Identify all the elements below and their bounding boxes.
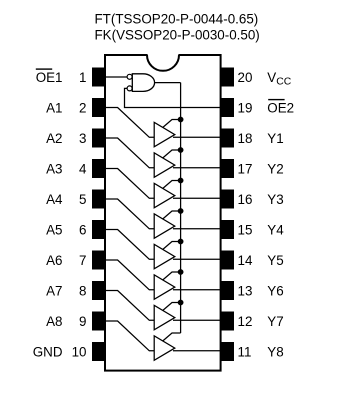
pin 1 pad (OE1): [92, 68, 105, 87]
svg-text:Y5: Y5: [267, 253, 283, 268]
pin 5 pad (A4): [92, 190, 105, 209]
svg-text:A2: A2: [46, 131, 62, 146]
wire enable tap to U6: [163, 272, 181, 280]
junction dot on enable bus at U4: [178, 208, 184, 214]
pin 7 pad (A6): [92, 251, 105, 270]
wire A3 input from pin 4: [105, 169, 155, 199]
vertical enable bus wire: [180, 83, 182, 333]
wire A6 input from pin 7: [105, 260, 155, 290]
svg-text:CC: CC: [276, 76, 292, 87]
junction dot on enable bus at U5: [178, 239, 184, 245]
wire Y5 output to pin 14: [173, 258, 221, 260]
pin 20 pad (VCC): [221, 68, 234, 87]
wire A1 input from pin 2: [105, 108, 155, 138]
svg-text:9: 9: [79, 314, 86, 329]
svg-text:20: 20: [238, 70, 253, 85]
IC package body (TSSOP20 outline): [105, 55, 221, 371]
svg-text:A7: A7: [46, 283, 62, 298]
pin 4 pad (A3): [92, 159, 105, 178]
svg-text:11: 11: [238, 344, 252, 359]
wire Y6 output to pin 13: [173, 289, 221, 291]
pin 6 pad (A5): [92, 220, 105, 239]
svg-text:GND: GND: [33, 344, 63, 359]
svg-text:3: 3: [79, 131, 86, 146]
pin 12 pad (Y7): [221, 312, 234, 331]
svg-text:OE1: OE1: [36, 70, 63, 85]
svg-text:15: 15: [238, 222, 253, 237]
wire G1 output to enable bus: [155, 82, 181, 84]
svg-text:Y3: Y3: [267, 192, 283, 207]
svg-text:4: 4: [79, 161, 87, 176]
svg-text:14: 14: [238, 253, 253, 268]
pin-1 orientation notch: [148, 53, 179, 57]
wire A7 input from pin 8: [105, 291, 155, 321]
buffer U2 (A2 to Y2): [154, 153, 175, 178]
svg-text:2: 2: [79, 100, 86, 115]
buffer U3 (A3 to Y3): [154, 183, 175, 208]
wire enable tap to U2: [163, 150, 181, 158]
svg-text:1: 1: [79, 70, 86, 85]
wire Y2 output to pin 17: [173, 167, 221, 169]
wire enable tap to U3: [163, 181, 181, 189]
wire Y7 output to pin 12: [173, 319, 221, 321]
buffer U6 (A6 to Y6): [154, 275, 175, 300]
svg-text:18: 18: [238, 131, 253, 146]
pin 13 pad (Y6): [221, 281, 234, 300]
wire enable tap to U8: [163, 333, 181, 341]
svg-text:A5: A5: [46, 222, 62, 237]
wire enable tap to U7: [163, 303, 181, 311]
svg-text:Y7: Y7: [267, 314, 283, 329]
svg-text:Y8: Y8: [267, 344, 283, 359]
junction dot on enable bus at U3: [178, 178, 184, 184]
svg-text:OE2: OE2: [267, 100, 294, 115]
pin 18 pad (Y1): [221, 129, 234, 148]
buffer U1 (A1 to Y1): [154, 122, 175, 147]
wire pin19 OE2 to G1 input bubble: [125, 88, 221, 107]
svg-text:A4: A4: [46, 192, 63, 207]
pin 15 pad (Y4): [221, 220, 234, 239]
G1 input inversion bubble (OE1): [127, 74, 132, 79]
junction dot on enable bus at U2: [178, 147, 184, 153]
wire A4 input from pin 5: [105, 199, 155, 229]
svg-text:7: 7: [79, 253, 86, 268]
pin 16 pad (Y3): [221, 190, 234, 209]
wire enable tap to U1: [163, 120, 181, 128]
wire pin1 OE1 to G1 input bubble: [105, 76, 128, 78]
svg-text:FK(VSSOP20-P-0030-0.50): FK(VSSOP20-P-0030-0.50): [95, 28, 260, 43]
wire A5 input from pin 6: [105, 230, 155, 260]
svg-text:13: 13: [238, 283, 253, 298]
pin 19 pad (OE2): [221, 98, 234, 117]
svg-text:5: 5: [79, 192, 86, 207]
svg-text:6: 6: [79, 222, 86, 237]
wire Y4 output to pin 15: [173, 228, 221, 230]
overline for OE1: [36, 68, 52, 69]
svg-text:8: 8: [79, 283, 86, 298]
svg-text:FT(TSSOP20-P-0044-0.65): FT(TSSOP20-P-0044-0.65): [95, 12, 259, 27]
svg-text:10: 10: [72, 344, 87, 359]
svg-text:Y2: Y2: [267, 161, 283, 176]
svg-text:Y1: Y1: [267, 131, 283, 146]
pin 8 pad (A7): [92, 281, 105, 300]
pin 14 pad (Y5): [221, 251, 234, 270]
enable AND gate G1 (inputs inverted): [132, 74, 154, 92]
junction dot on enable bus at U1: [178, 117, 184, 123]
buffer U8 (A8 to Y8): [154, 336, 175, 361]
svg-text:A8: A8: [46, 314, 62, 329]
svg-text:19: 19: [238, 100, 253, 115]
wire Y8 output to pin 11: [173, 350, 221, 352]
svg-text:Y6: Y6: [267, 283, 283, 298]
svg-text:A1: A1: [46, 100, 62, 115]
wire enable tap to U5: [163, 242, 181, 250]
svg-text:Y4: Y4: [267, 222, 284, 237]
wire A8 input from pin 9: [105, 321, 155, 351]
wire Y1 output to pin 18: [173, 136, 221, 138]
wire A2 input from pin 3: [105, 138, 155, 168]
pin 9 pad (A8): [92, 312, 105, 331]
svg-text:A6: A6: [46, 253, 62, 268]
junction dot on enable bus at U6: [178, 269, 184, 275]
svg-text:A3: A3: [46, 161, 62, 176]
svg-text:12: 12: [238, 314, 253, 329]
svg-text:16: 16: [238, 192, 253, 207]
pin 2 pad (A1): [92, 98, 105, 117]
overline for OE2: [268, 99, 284, 100]
svg-text:V: V: [267, 70, 276, 85]
wire Y3 output to pin 16: [173, 197, 221, 199]
pin 3 pad (A2): [92, 129, 105, 148]
buffer U7 (A7 to Y7): [154, 305, 175, 330]
pin 11 pad (Y8): [221, 342, 234, 361]
svg-text:17: 17: [238, 161, 253, 176]
buffer U5 (A5 to Y5): [154, 244, 175, 268]
G1 input inversion bubble (OE2): [127, 86, 132, 91]
wire enable tap to U4: [163, 211, 181, 219]
pin 10 pad (GND): [92, 342, 105, 361]
pin 17 pad (Y2): [221, 159, 234, 178]
buffer U4 (A4 to Y4): [154, 214, 175, 239]
junction dot on enable bus at U7: [178, 300, 184, 306]
